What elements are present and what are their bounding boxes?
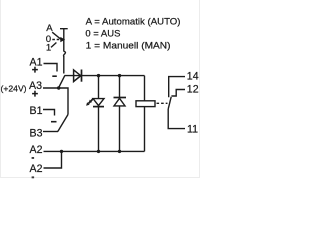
svg-text:1: 1 xyxy=(46,43,51,54)
selector line 1 xyxy=(51,43,56,48)
wire top bus xyxy=(65,75,145,77)
selector latch bump xyxy=(64,51,66,56)
terminal labels xyxy=(1,56,199,175)
wire bottom bus xyxy=(62,150,145,152)
wire A3 xyxy=(43,88,68,115)
node bus/D2 xyxy=(118,74,121,77)
polarity mark - (A2 upper) xyxy=(32,157,34,159)
svg-text:A2: A2 xyxy=(30,144,43,156)
wire terminal 14 xyxy=(169,77,185,98)
relay coil K1 xyxy=(136,101,155,107)
diode D1 xyxy=(74,70,82,82)
svg-text:A2: A2 xyxy=(30,163,43,175)
svg-text:(+24V): (+24V) xyxy=(1,83,27,93)
switch arm A xyxy=(59,76,65,88)
svg-text:+: + xyxy=(32,65,38,77)
selector line 0 (dashed) xyxy=(52,39,59,41)
selector T-handle xyxy=(60,29,68,74)
selector position labels xyxy=(46,23,54,54)
wire coil branch xyxy=(144,76,146,152)
node A3/arm xyxy=(57,86,60,89)
contact bar B xyxy=(51,121,57,123)
selector line A xyxy=(52,32,62,40)
svg-text:A: A xyxy=(46,23,53,34)
svg-text:B3: B3 xyxy=(30,127,43,139)
wire terminal 12 xyxy=(171,90,185,97)
wire B3 xyxy=(43,131,58,133)
svg-text:14: 14 xyxy=(187,71,199,83)
selector arrowhead xyxy=(60,37,65,42)
svg-text:+: + xyxy=(32,89,38,101)
node bottom/D2 xyxy=(118,150,121,153)
wire D2 branch xyxy=(119,76,121,152)
node bottom/LED xyxy=(97,150,100,153)
svg-text:B1: B1 xyxy=(30,105,43,117)
svg-text:A = Automatik (AUTO): A = Automatik (AUTO) xyxy=(86,17,181,28)
svg-text:0 = AUS: 0 = AUS xyxy=(85,28,120,39)
relay contact xyxy=(168,77,185,129)
node A2 junction xyxy=(60,150,63,153)
junction dots xyxy=(57,37,121,153)
diode D2 (flyback) xyxy=(114,98,127,106)
LED xyxy=(86,99,104,107)
wire A2 upper xyxy=(44,150,62,152)
wire B1 xyxy=(43,110,55,116)
LED arrows xyxy=(88,99,93,104)
wire terminal 11 xyxy=(168,109,185,129)
svg-text:11: 11 xyxy=(187,124,198,136)
node bus/LED xyxy=(97,74,100,77)
switch arm B xyxy=(58,115,68,132)
wire A2 lower xyxy=(44,151,62,168)
wire A1 xyxy=(44,64,58,72)
polarity mark - (A2 lower) xyxy=(32,176,34,178)
contact arm xyxy=(168,97,171,109)
mechanical link (dashed) xyxy=(157,102,168,104)
contact bar A xyxy=(52,75,57,77)
svg-text:1 = Manuell (MAN): 1 = Manuell (MAN) xyxy=(86,41,171,52)
svg-text:12: 12 xyxy=(187,84,199,96)
legend text xyxy=(85,17,180,52)
wire LED branch xyxy=(98,76,100,152)
